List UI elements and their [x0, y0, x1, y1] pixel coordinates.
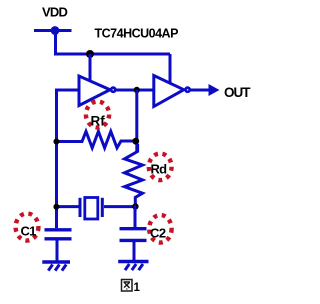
capacitor C2 top plate: [120, 227, 147, 230]
inverter U1B output bubble: [186, 88, 190, 92]
figure caption 图1: [122, 280, 133, 292]
svg-text:VDD: VDD: [42, 5, 68, 20]
svg-text:Rd: Rd: [151, 162, 168, 177]
C1 annotation dashed circle: [16, 213, 39, 240]
wire crystal row left segment: [57, 205, 79, 208]
ground under C2: [118, 262, 148, 271]
Rd annotation dashed circle: [149, 154, 172, 181]
node U1A output junction: [134, 87, 140, 93]
node crystal left junction: [53, 204, 59, 210]
wire C1 to ground: [56, 240, 59, 261]
node Rf left junction: [53, 139, 59, 145]
C2 annotation dashed circle: [149, 215, 171, 243]
svg-text:OUT: OUT: [224, 85, 251, 100]
VDD power symbol tick: [34, 29, 72, 32]
wire U1A output to U1B input: [116, 89, 154, 92]
svg-text:1: 1: [134, 282, 141, 294]
node Rf right junction: [132, 138, 139, 145]
wire C2 to ground: [133, 242, 136, 261]
wire input to U1A: [57, 89, 80, 92]
svg-text:C2: C2: [150, 226, 166, 241]
svg-text:Rf: Rf: [91, 114, 106, 129]
resistor Rd: [125, 144, 143, 205]
wire right vertical U1A.out down to Rd: [135, 90, 138, 152]
svg-text:C1: C1: [21, 224, 37, 239]
crystal X1 body: [85, 198, 98, 220]
wire left vertical net: [55, 89, 58, 229]
Rf annotation dashed circle: [86, 102, 109, 128]
wire crystal junction down to C2: [134, 205, 137, 227]
crystal X1 left plate: [79, 198, 82, 217]
VDD power symbol dot: [51, 26, 60, 35]
node crystal right junction: [132, 203, 138, 209]
OUT arrowhead: [209, 84, 220, 96]
ground under C1: [42, 262, 70, 271]
wire VDD down to rail: [54, 31, 57, 55]
capacitor C2 bottom plate: [120, 239, 147, 242]
wire crystal row right segment: [104, 205, 135, 208]
capacitor C1 top plate: [45, 228, 72, 231]
svg-text:TC74HCU04AP: TC74HCU04AP: [95, 27, 179, 41]
wire U1B output: [191, 89, 210, 92]
resistor Rf: [58, 131, 136, 148]
wire top supply rail: [54, 53, 170, 56]
wire rail drop to inverter U1A: [89, 54, 92, 82]
inverter U1B triangle: [154, 76, 184, 107]
capacitor C1 bottom plate: [45, 237, 72, 240]
inverter U1A output bubble: [111, 88, 115, 92]
node junction on rail: [86, 50, 94, 58]
crystal X1 right plate: [101, 198, 104, 217]
wire rail drop to inverter U1B: [169, 54, 172, 84]
inverter U1A triangle: [79, 76, 110, 106]
